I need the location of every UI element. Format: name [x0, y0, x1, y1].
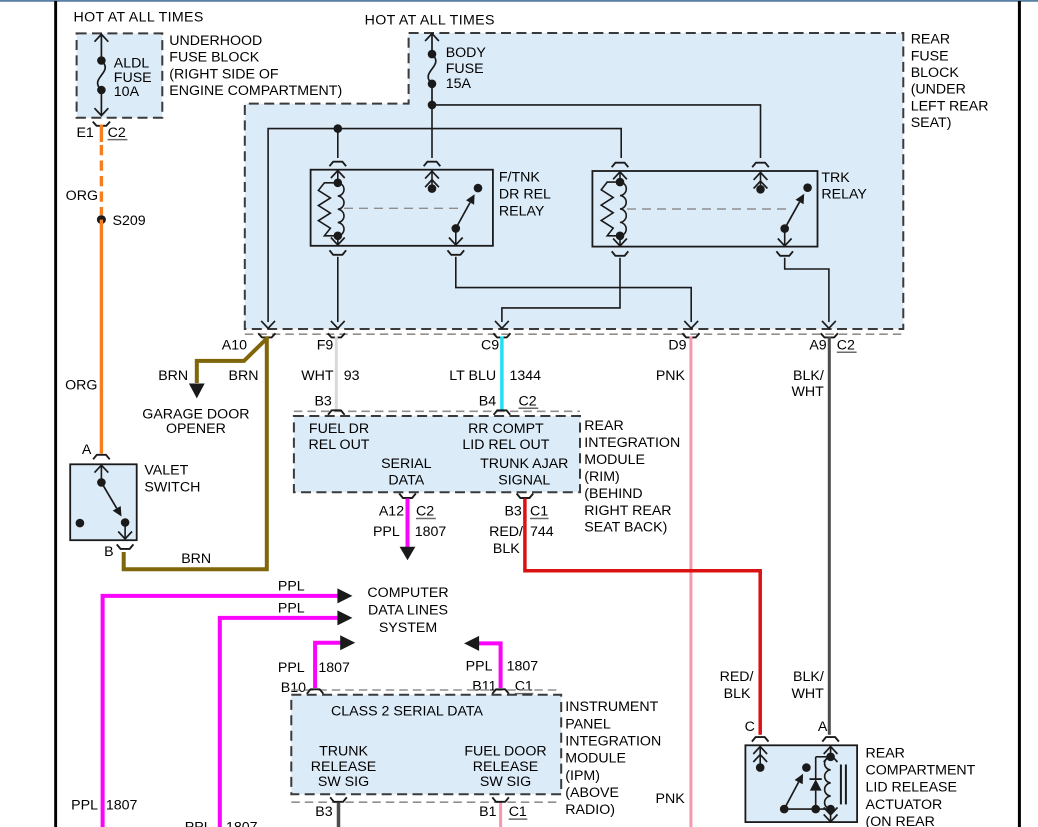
- label B4: [479, 393, 496, 409]
- actuator diode D1: [810, 757, 822, 809]
- svg-text:INTEGRATION: INTEGRATION: [584, 435, 680, 451]
- label C2 underlined: [108, 125, 128, 141]
- svg-text:PPL: PPL: [278, 579, 305, 595]
- svg-text:744: 744: [530, 524, 554, 540]
- relay TRK actuation dashed link: [627, 208, 790, 210]
- relay TRK coil arrow in: [613, 172, 627, 182]
- svg-text:REAR: REAR: [866, 745, 905, 761]
- label RR COMPT LID REL OUT: [462, 421, 549, 453]
- connector arc RIM A12: [399, 494, 416, 499]
- label BRN (right of arrow): [229, 368, 259, 384]
- svg-text:MODULE: MODULE: [584, 452, 645, 468]
- svg-text:C9: C9: [481, 337, 499, 353]
- actuator ajar switch blade: [784, 763, 811, 809]
- svg-text:1807: 1807: [507, 659, 539, 675]
- label BODY FUSE 15A: [446, 45, 487, 92]
- svg-text:B: B: [104, 544, 113, 560]
- svg-text:RELAY: RELAY: [821, 187, 867, 203]
- label HOT AT ALL TIMES (left): [74, 10, 204, 26]
- actuator A input arrow: [824, 745, 838, 762]
- svg-text:B1: B1: [479, 804, 496, 820]
- relay TRK switch blade: [780, 183, 811, 233]
- wire RED/BLK RIM B3 to actuator C: [525, 499, 760, 735]
- connector arc TRK switch top: [752, 163, 769, 168]
- rear fuse block box (L-shape): [245, 33, 904, 329]
- wire ORG solid to valet switch: [100, 220, 103, 454]
- svg-text:C: C: [745, 719, 755, 735]
- label E1: [76, 125, 93, 141]
- label GARAGE DOOR OPENER: [142, 407, 249, 438]
- relay TRK coil arrow out: [613, 236, 627, 246]
- connector arc IPM B3: [330, 797, 347, 802]
- label C2 underlined (A12): [416, 504, 436, 520]
- svg-text:FUSE BLOCK: FUSE BLOCK: [169, 50, 259, 66]
- svg-text:B3: B3: [315, 804, 332, 820]
- svg-text:SYSTEM: SYSTEM: [379, 620, 437, 636]
- label C1 underlined (RIM B3): [530, 504, 549, 520]
- connector arc RIM B3 bottom: [517, 494, 534, 499]
- svg-text:DATA: DATA: [388, 472, 424, 488]
- label COMPUTER DATA LINES SYSTEM: [367, 585, 448, 636]
- relay F/TNK switch input arrow: [425, 170, 439, 193]
- label VALET SWITCH: [144, 462, 200, 495]
- label B1: [479, 804, 496, 820]
- relay F/TNK box: [311, 170, 493, 246]
- svg-text:SEAT BACK): SEAT BACK): [584, 520, 667, 536]
- relay TRK switch input arrow: [754, 171, 768, 194]
- label LT BLU: [449, 368, 496, 384]
- actuator bottom bus: [784, 808, 830, 810]
- relay F/TNK coil dots: [334, 179, 343, 241]
- label D9: [668, 337, 686, 353]
- actuator solenoid coil: [825, 757, 831, 809]
- label B11: [472, 679, 496, 695]
- connector arc F9: [328, 333, 345, 337]
- wire TRK switch to A9: [785, 258, 836, 329]
- svg-text:93: 93: [344, 368, 360, 384]
- connector arc C9: [493, 333, 510, 337]
- relay F/TNK switch output arrow: [449, 228, 463, 245]
- wire BLK IPM B3 down: [337, 803, 341, 827]
- wire bus to relay coils and A10: [268, 129, 621, 322]
- valet switch box: [70, 464, 137, 540]
- svg-text:BODY: BODY: [446, 45, 487, 61]
- svg-text:1807: 1807: [106, 798, 138, 814]
- svg-text:C1: C1: [509, 804, 527, 820]
- svg-text:SW SIG: SW SIG: [318, 774, 369, 790]
- label BRN (near valet switch): [181, 551, 211, 567]
- label ORG (lower): [65, 377, 97, 393]
- connector arc TRK coil top: [612, 163, 629, 168]
- label REAR FUSE BLOCK: [911, 32, 989, 132]
- label 1344: [510, 368, 542, 384]
- relay F/TNK coil arrow out: [331, 236, 345, 245]
- svg-text:15A: 15A: [446, 76, 472, 92]
- svg-text:PNK: PNK: [656, 368, 686, 384]
- label C (actuator): [745, 719, 755, 735]
- valet switch blade: [101, 482, 129, 526]
- left frame bar: [54, 1, 57, 827]
- relay TRK coil resistor: [601, 182, 620, 236]
- label A10: [222, 337, 247, 353]
- actuator box: [745, 745, 857, 822]
- svg-text:RELEASE: RELEASE: [311, 759, 376, 775]
- wire BRN branch to garage door opener: [197, 339, 267, 384]
- connector arc valet B: [117, 544, 134, 549]
- svg-text:(ON REAR: (ON REAR: [866, 814, 935, 827]
- wire PPL B11 to computer data lines: [478, 643, 500, 688]
- svg-text:C1: C1: [530, 504, 548, 520]
- label BLK/WHT (upper): [791, 368, 824, 400]
- label PNK (lower): [656, 791, 686, 807]
- label PPL (A12): [373, 524, 400, 540]
- wire branch to F/TNK coil: [337, 129, 339, 158]
- svg-text:DR REL: DR REL: [499, 187, 551, 203]
- label 93: [344, 368, 360, 384]
- connector arc valet A: [93, 455, 110, 460]
- svg-text:ORG: ORG: [65, 377, 97, 393]
- actuator junction dots: [780, 753, 835, 814]
- svg-text:S209: S209: [113, 213, 146, 229]
- svg-text:SEAT): SEAT): [911, 115, 952, 131]
- svg-text:C2: C2: [108, 125, 126, 141]
- svg-text:ACTUATOR: ACTUATOR: [866, 797, 943, 813]
- svg-text:(IPM): (IPM): [565, 768, 600, 784]
- label UNDERHOOD FUSE BLOCK: [169, 33, 342, 99]
- wire ORG solid stub below C2: [100, 125, 103, 143]
- svg-text:B3: B3: [314, 393, 331, 409]
- svg-text:PPL: PPL: [373, 524, 400, 540]
- svg-text:1807: 1807: [318, 660, 350, 676]
- svg-text:F9: F9: [317, 337, 334, 353]
- label F9: [317, 337, 334, 353]
- IPM module box: [291, 695, 561, 795]
- svg-text:WHT: WHT: [301, 368, 334, 384]
- arrow to garage door opener: [189, 384, 205, 399]
- svg-text:RR COMPT: RR COMPT: [468, 421, 544, 437]
- svg-text:REAR: REAR: [911, 32, 950, 48]
- connector arc IPM B10: [307, 689, 324, 694]
- svg-text:PNK: PNK: [656, 791, 686, 807]
- node junction on coil bus: [334, 124, 343, 133]
- svg-text:WHT: WHT: [791, 384, 824, 400]
- label PPL (line2): [278, 601, 305, 617]
- label 744: [530, 524, 554, 540]
- arrow PPL line 4 (left): [464, 636, 479, 651]
- svg-text:FUEL DOOR: FUEL DOOR: [464, 743, 546, 759]
- svg-text:C1: C1: [515, 679, 533, 695]
- svg-text:SERIAL: SERIAL: [381, 456, 432, 472]
- label PPL (line1): [278, 579, 305, 595]
- svg-text:A9: A9: [809, 337, 826, 353]
- svg-text:(RIM): (RIM): [584, 469, 619, 485]
- connector arc TRK switch bottom: [776, 251, 793, 256]
- connector arc F/TNK coil bottom: [330, 250, 347, 255]
- label FUEL DOOR RELEASE SW SIG: [464, 743, 546, 789]
- svg-text:LID RELEASE: LID RELEASE: [866, 780, 957, 796]
- svg-text:COMPUTER: COMPUTER: [367, 585, 448, 601]
- svg-text:WHT: WHT: [791, 686, 824, 702]
- svg-text:PPL: PPL: [278, 601, 305, 617]
- label TRK RELAY: [821, 170, 867, 202]
- splice S209: [97, 215, 106, 224]
- svg-text:(BEHIND: (BEHIND: [584, 486, 642, 502]
- svg-text:A10: A10: [222, 337, 247, 353]
- connector arc IPM B1: [492, 797, 509, 802]
- connector line (gray dashed) above IPM: [291, 689, 561, 691]
- label C2 underlined (B4): [519, 393, 539, 409]
- svg-text:(ABOVE: (ABOVE: [565, 785, 619, 801]
- svg-text:RELEASE: RELEASE: [473, 759, 538, 775]
- label A (actuator): [818, 719, 828, 735]
- relay F/TNK coil inductor: [338, 183, 344, 236]
- label C1 underlined (B1): [509, 804, 528, 820]
- svg-text:C2: C2: [837, 337, 855, 353]
- svg-text:SIGNAL: SIGNAL: [498, 472, 550, 488]
- label PPL 1807 (B11): [466, 659, 539, 675]
- svg-text:A12: A12: [379, 504, 404, 520]
- svg-text:PPL: PPL: [71, 798, 98, 814]
- connector arc F/TNK switch top: [424, 162, 441, 167]
- label B3 (IPM): [315, 804, 332, 820]
- label SERIAL DATA: [381, 456, 432, 488]
- wire BLK/WHT A9 to actuator A: [828, 336, 831, 734]
- label C2 underlined (A9): [837, 337, 857, 353]
- connector arc A9: [821, 333, 838, 337]
- svg-text:INSTRUMENT: INSTRUMENT: [565, 699, 658, 715]
- relay F/TNK actuation dashed link: [344, 207, 461, 209]
- label TRUNK RELEASE SW SIG: [311, 743, 376, 789]
- svg-text:BRN: BRN: [229, 368, 259, 384]
- svg-text:F/TNK: F/TNK: [499, 170, 541, 186]
- svg-text:LEFT REAR: LEFT REAR: [911, 98, 989, 114]
- label RED/BLK (lower): [720, 669, 754, 702]
- connector arc F/TNK coil top: [330, 162, 347, 167]
- fuse BODY 15A: [425, 34, 439, 105]
- label S209: [113, 213, 146, 229]
- wire BODY fuse to TRK relay switch: [432, 105, 761, 158]
- arrow serial data down: [400, 547, 416, 560]
- svg-text:ENGINE COMPARTMENT): ENGINE COMPARTMENT): [169, 83, 342, 99]
- wire BRN A10 to valet switch B: [124, 336, 267, 569]
- svg-text:BLK/: BLK/: [793, 368, 824, 384]
- svg-text:PPL: PPL: [466, 659, 493, 675]
- relay TRK switch output arrow: [778, 229, 792, 246]
- svg-text:TRK: TRK: [821, 170, 850, 186]
- svg-text:B4: B4: [479, 393, 496, 409]
- relay TRK box: [592, 171, 817, 247]
- svg-text:LT BLU: LT BLU: [449, 368, 496, 384]
- label F/TNK DR REL RELAY: [499, 170, 551, 220]
- svg-text:1344: 1344: [510, 368, 542, 384]
- arrow PPL line 3: [340, 635, 355, 650]
- connector arc RIM B3: [328, 410, 345, 415]
- svg-text:ORG: ORG: [66, 188, 98, 204]
- label PNK (upper): [656, 368, 686, 384]
- wire diode top to A: [816, 756, 831, 758]
- svg-text:B3: B3: [504, 504, 521, 520]
- wire BODY fuse to F/TNK relay switch: [431, 105, 433, 158]
- label TRUNK AJAR SIGNAL: [480, 456, 568, 488]
- connector arc TRK coil bottom: [612, 251, 629, 256]
- svg-text:FUSE: FUSE: [446, 61, 484, 77]
- svg-text:RED/: RED/: [489, 524, 523, 540]
- arrow PPL line 2: [337, 610, 352, 625]
- actuator solenoid core bars: [841, 765, 846, 805]
- valet switch NC contact dot: [76, 519, 85, 528]
- label PPL 1807 (B10): [278, 660, 350, 676]
- svg-text:SW SIG: SW SIG: [480, 774, 531, 790]
- connector line C2 (gray dashed) under rear fuse block: [245, 333, 904, 335]
- svg-text:PPL: PPL: [185, 820, 212, 827]
- underhood fuse block box: [77, 33, 163, 117]
- connector C2 terminal E1 (under ALDL fuse): [93, 122, 110, 126]
- svg-text:BLK/: BLK/: [793, 669, 824, 685]
- label A9: [809, 337, 826, 353]
- svg-text:COMPARTMENT: COMPARTMENT: [866, 763, 976, 779]
- svg-text:MODULE: MODULE: [565, 751, 626, 767]
- label FUEL DR REL OUT: [309, 421, 370, 453]
- svg-text:FUSE: FUSE: [911, 48, 949, 64]
- label RED/BLK (upper): [489, 524, 523, 557]
- connector arc RIM B4: [494, 410, 511, 415]
- node junction below BODY fuse: [428, 101, 437, 110]
- relay TRK coil inductor: [620, 182, 626, 236]
- label B3 (RIM top): [314, 393, 331, 409]
- wire F/TNK switch to D9: [456, 257, 698, 329]
- label ORG (upper): [66, 188, 98, 204]
- wire WHT F9 to RIM B3: [335, 336, 338, 409]
- svg-text:REAR: REAR: [584, 418, 623, 434]
- label B10: [281, 680, 306, 696]
- svg-text:(UNDER: (UNDER: [911, 82, 966, 98]
- connector arc actuator C: [752, 737, 769, 742]
- right frame bar: [1018, 1, 1021, 827]
- svg-text:BRN: BRN: [158, 368, 188, 384]
- label PPL 1807 (bottom cut): [185, 820, 258, 827]
- svg-text:10A: 10A: [114, 84, 140, 100]
- svg-text:BLK: BLK: [724, 686, 751, 702]
- connector arc D9: [682, 333, 699, 337]
- connector arc actuator A: [822, 737, 839, 742]
- label BRN (left of arrow): [158, 368, 188, 384]
- connector arc A10: [258, 333, 275, 337]
- label B3 (RIM bottom): [504, 504, 521, 520]
- svg-text:UNDERHOOD: UNDERHOOD: [169, 33, 262, 49]
- relay F/TNK coil arrow in: [331, 171, 345, 183]
- svg-text:CLASS 2 SERIAL DATA: CLASS 2 SERIAL DATA: [331, 704, 483, 720]
- svg-text:PPL: PPL: [278, 660, 305, 676]
- top page border: [0, 0, 1038, 2]
- svg-text:TRUNK: TRUNK: [319, 743, 368, 759]
- label CLASS 2 SERIAL DATA: [331, 704, 483, 720]
- label A (valet): [82, 442, 92, 458]
- RIM module box: [294, 416, 580, 492]
- label REAR INTEGRATION MODULE (RIM): [584, 418, 680, 536]
- svg-text:RED/: RED/: [720, 669, 754, 685]
- wire PPL A12 serial data: [406, 499, 410, 548]
- svg-text:LID REL OUT: LID REL OUT: [462, 437, 549, 453]
- svg-text:HOT AT ALL TIMES: HOT AT ALL TIMES: [365, 12, 495, 28]
- svg-text:A: A: [82, 442, 92, 458]
- svg-text:D9: D9: [668, 337, 686, 353]
- wire PPL class2 line 1: [103, 596, 339, 827]
- valet switch input arrow: [95, 465, 109, 487]
- svg-text:DATA LINES: DATA LINES: [368, 603, 448, 619]
- label C9: [481, 337, 499, 353]
- svg-text:REL OUT: REL OUT: [309, 437, 370, 453]
- label B (valet): [104, 544, 113, 560]
- label ALDL FUSE 10A: [114, 55, 152, 100]
- label BLK/WHT (lower): [791, 669, 824, 702]
- connector arc F/TNK switch bottom: [448, 250, 465, 255]
- label A12: [379, 504, 404, 520]
- svg-text:BRN: BRN: [181, 551, 211, 567]
- svg-text:RELAY: RELAY: [499, 203, 545, 219]
- wire ORG dashed: [100, 145, 103, 215]
- svg-text:E1: E1: [76, 125, 93, 141]
- svg-text:PANEL: PANEL: [565, 716, 611, 732]
- wire PNK D9 down page: [689, 336, 692, 827]
- svg-text:RADIO): RADIO): [565, 802, 615, 818]
- svg-text:BLK: BLK: [493, 541, 520, 557]
- label C1 underlined (B11): [515, 679, 534, 695]
- svg-text:RIGHT REAR: RIGHT REAR: [584, 503, 671, 519]
- valet switch output arrow: [118, 523, 132, 539]
- svg-text:C2: C2: [416, 504, 434, 520]
- svg-text:1807: 1807: [226, 820, 258, 827]
- svg-text:SWITCH: SWITCH: [144, 479, 200, 495]
- wire LT BLU C9 to RIM B4: [500, 336, 504, 409]
- label PPL 1807 (bottom left): [71, 798, 137, 814]
- actuator C input arrow: [753, 745, 767, 772]
- svg-text:HOT AT ALL TIMES: HOT AT ALL TIMES: [74, 10, 204, 26]
- label INSTRUMENT PANEL INTEGRATION MODULE (IPM): [565, 699, 661, 818]
- connector arc IPM B11: [492, 689, 509, 694]
- actuator ground arrow out: [824, 807, 838, 821]
- svg-text:TRUNK AJAR: TRUNK AJAR: [480, 456, 568, 472]
- svg-text:OPENER: OPENER: [166, 421, 226, 437]
- relay F/TNK switch blade: [452, 184, 483, 233]
- svg-text:(RIGHT SIDE OF: (RIGHT SIDE OF: [169, 67, 279, 83]
- relay F/TNK coil resistor: [318, 183, 337, 236]
- connector line (gray dashed) above RIM: [294, 410, 580, 412]
- svg-text:VALET: VALET: [144, 462, 188, 478]
- wire PNK IPM B1 down: [499, 803, 502, 827]
- arrow PPL line 1: [337, 588, 352, 603]
- svg-text:A: A: [818, 719, 828, 735]
- relay TRK coil dots: [616, 178, 625, 240]
- svg-text:C2: C2: [519, 393, 537, 409]
- svg-text:1807: 1807: [415, 524, 447, 540]
- wire A10 entry arrow: [261, 321, 275, 328]
- wire F/TNK coil to F9: [331, 257, 345, 329]
- label WHT: [301, 368, 334, 384]
- svg-text:INTEGRATION: INTEGRATION: [565, 733, 661, 749]
- label 1807 (A12): [415, 524, 447, 540]
- wire PPL class2 line 2: [220, 618, 338, 827]
- wire TRK coil to C9: [495, 258, 620, 329]
- svg-text:BLOCK: BLOCK: [911, 65, 960, 81]
- connector line (gray dashed) below IPM: [291, 801, 561, 803]
- svg-text:FUEL DR: FUEL DR: [309, 421, 369, 437]
- label REAR COMPARTMENT LID RELEASE ACTUATOR: [866, 745, 976, 827]
- wire PPL B10 to computer data lines: [315, 643, 341, 688]
- fuse ALDL 10A: [95, 34, 109, 115]
- svg-text:B10: B10: [281, 680, 306, 696]
- label HOT AT ALL TIMES (middle): [365, 12, 495, 28]
